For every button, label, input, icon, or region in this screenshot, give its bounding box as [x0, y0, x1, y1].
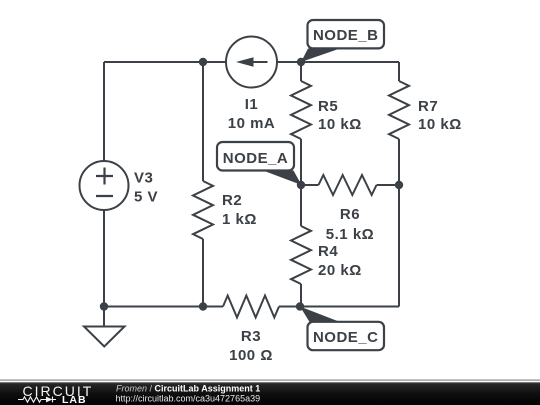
wire: R2 bottom lead: [202, 239, 204, 307]
node B callout pointer: [301, 49, 340, 63]
resistor R7: [389, 81, 409, 139]
resistor R5: [291, 81, 311, 139]
svg-text:R4: R4: [318, 243, 338, 260]
svg-text:20 kΩ: 20 kΩ: [318, 262, 362, 279]
node junction dot ground: [100, 302, 108, 310]
node A callout pointer: [259, 169, 302, 185]
resistor R2: [193, 181, 213, 239]
wire: R7 bottom lead / right column: [398, 139, 400, 307]
svg-text:V3: V3: [134, 170, 153, 187]
node B label box NODE_B: [308, 20, 385, 48]
wire: R4 top lead: [300, 185, 302, 226]
wire: I1 right to R7 top: [278, 61, 400, 63]
wire: R6 right lead: [377, 184, 400, 186]
node B junction dot: [297, 58, 305, 66]
svg-text:R5: R5: [318, 98, 338, 115]
wire: R7 top lead: [398, 62, 400, 81]
svg-text:10 kΩ: 10 kΩ: [318, 116, 362, 133]
wire: left column V3 bottom: [103, 210, 105, 307]
wire: top net from V3 to I1 left: [104, 61, 226, 63]
svg-text:R7: R7: [418, 98, 438, 115]
svg-text:I1: I1: [245, 96, 259, 113]
current source I1: [226, 37, 277, 88]
svg-text:R3: R3: [241, 328, 261, 345]
svg-text:10 mA: 10 mA: [228, 115, 276, 132]
node C junction dot: [296, 302, 304, 310]
svg-text:5.1 kΩ: 5.1 kΩ: [326, 226, 374, 243]
label R7 value 10 kOhm: [418, 98, 462, 133]
svg-text:5 V: 5 V: [134, 189, 158, 206]
wire: bottom net left of R3: [104, 306, 223, 308]
wire: R2 top lead: [202, 62, 204, 181]
svg-text:10 kΩ: 10 kΩ: [418, 116, 462, 133]
svg-text:NODE_B: NODE_B: [313, 27, 379, 44]
wire: left column V3 top: [103, 62, 105, 161]
svg-text:NODE_C: NODE_C: [313, 329, 379, 346]
resistor R6: [319, 175, 377, 195]
wire: R5 bottom lead: [300, 139, 302, 185]
wire: bottom net right of R3: [279, 306, 399, 308]
node junction dot R2/bottom: [199, 302, 207, 310]
node C label box NODE_C: [308, 322, 385, 350]
wire: R4 bottom lead: [300, 284, 302, 307]
node C callout pointer: [300, 307, 342, 323]
footer separator rule: [0, 380, 540, 381]
node A label box NODE_A: [217, 142, 294, 171]
node junction dot R2/top: [199, 58, 207, 66]
node A junction dot: [297, 181, 305, 189]
wire: R6 left lead: [301, 184, 319, 186]
svg-text:LAB: LAB: [62, 394, 87, 405]
label R5 value 10 kOhm: [318, 98, 362, 133]
resistor R4: [291, 226, 311, 284]
label R6 value 5.1 kOhm: [326, 206, 374, 243]
wire: R5 top lead: [300, 62, 302, 81]
svg-text:100 Ω: 100 Ω: [229, 347, 273, 364]
svg-text:R2: R2: [222, 192, 242, 209]
svg-text:Fromen / CircuitLab Assignment: Fromen / CircuitLab Assignment 1: [116, 384, 260, 394]
voltage source V3: [80, 161, 129, 210]
svg-text:R6: R6: [340, 206, 360, 223]
svg-text:1 kΩ: 1 kΩ: [222, 211, 257, 228]
label R4 value 20 kOhm: [318, 243, 362, 279]
label I1 value 10 mA: [228, 96, 276, 132]
ground: [84, 307, 125, 347]
svg-text:http://circuitlab.com/ca3u4727: http://circuitlab.com/ca3u472765a39: [116, 394, 261, 404]
label V3 value 5 V: [134, 170, 158, 206]
node junction dot R6/R7: [395, 181, 403, 189]
resistor R3: [223, 296, 279, 318]
label R3 value 100 Ohm: [229, 328, 273, 364]
CircuitLab logo resistor-diode glyph: [18, 397, 46, 402]
svg-text:NODE_A: NODE_A: [223, 150, 289, 167]
label R2 value 1 kOhm: [222, 192, 257, 228]
